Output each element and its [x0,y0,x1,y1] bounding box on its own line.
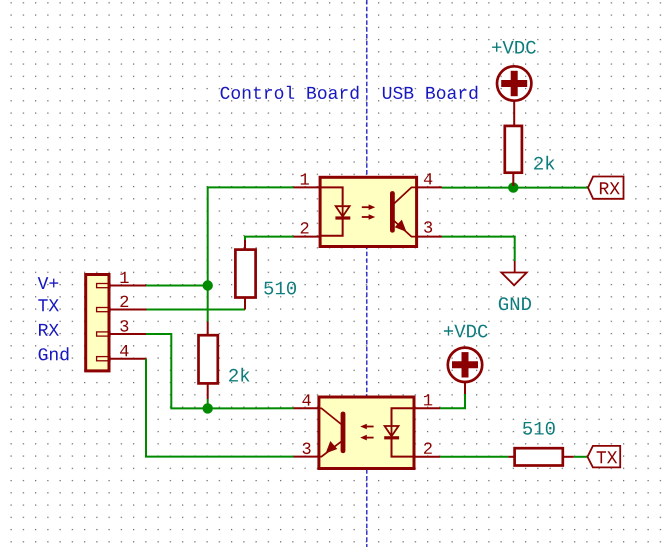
wire RX to junction B [146,334,294,408]
opto U1 pin number 3 [424,221,432,233]
opto U1 pin number 4 [424,173,432,184]
opto-isolator U1 body [320,177,417,246]
opto U1 light arrow top [362,204,375,210]
title USB Board [383,86,477,99]
opto U2 collector [317,408,341,424]
resistor R3 2k body [505,126,522,173]
opto U2 LED triangle [385,426,399,436]
power +VDC top stub [513,101,515,126]
wire R2 to opto U1 pin 2 [245,237,294,240]
opto U2 pin number 4 [302,394,310,405]
opto-isolator U2 pin 4 stub [294,407,320,409]
opto U1 LED triangle [336,206,350,216]
resistor R4 510 left lead [508,456,514,458]
opto U1 pin number 1 [301,173,309,184]
wire TX to R2 [147,309,246,311]
resistor R2 510 body [235,250,255,298]
flag TX text [597,451,618,463]
wire R4 to flag TX [574,456,588,458]
connector J1 pin 1 stub [109,285,147,287]
flag RX [588,177,624,199]
opto U2 emitter [317,441,341,456]
node junction A (V+ / R1) [203,280,213,290]
resistor R1 2k body [199,335,218,383]
opto-isolator U1 pin 2 stub [294,236,321,238]
opto U1 LED cathode bar [335,216,350,219]
wire opto U2 pin 2 to R4 [440,456,508,458]
opto U2 pin number 2 [424,442,432,453]
opto U2 pin number 1 [424,394,432,405]
power +VDC symbol top [497,66,531,100]
connector J1 pin 2 stub [109,309,147,311]
power label +VDC bottom [444,325,488,338]
opto U1 light arrow bottom [362,214,375,220]
resistor R4 right lead [563,456,574,458]
flag RX text [600,182,620,194]
title Control Board [221,86,359,99]
resistor R3 value 2k [534,156,555,170]
net label TX [38,299,59,311]
node junction B (RX net) [203,403,213,413]
power +VDC bottom stub [464,382,466,394]
opto-isolator U2 body [319,397,414,469]
node junction C (RX usb) [508,182,518,192]
opto U1 collector [394,187,417,203]
opto U1 LED cathode wire [320,218,343,236]
connector J1 pin 4 stub [109,358,147,360]
opto U2 LED cathode wire [392,438,414,457]
opto-isolator U1 pin 1 stub [294,186,321,188]
wire opto U1 pin 4 to flag RX [442,187,588,189]
opto U1 pin 3 stub [417,236,443,238]
opto U2 LED cathode bar [384,436,399,439]
connector J1 pin 3 notch [97,332,110,336]
opto U2 pin number 3 [303,443,311,455]
opto U1 phototransistor base bar [390,191,395,233]
ground stub [514,261,516,273]
board separator dashed line [366,0,368,547]
resistor R1 value 2k [229,368,250,382]
wire junction up to opto U1 pin 1 [208,187,294,286]
connector J1 pin 1 notch [97,284,110,288]
connector J1 pin number 3 [120,320,128,332]
ground symbol [501,273,526,286]
wire +VDC to opto U2 pin 1 [440,394,465,408]
connector J1 pin number 2 [120,296,128,307]
connector J1 pin number 4 [120,345,128,356]
connector J1 pin 2 notch [97,308,110,312]
opto U2 pin 1 stub [414,407,440,409]
opto-isolator U2 pin 3 stub [294,456,320,458]
power label +VDC top [492,41,536,54]
wire Gnd to opto U2 pin 3 [146,359,294,457]
connector J1 pin 3 stub [109,333,147,335]
resistor R1 bottom lead [207,383,209,399]
opto U1 emitter [394,221,417,237]
opto U2 phototransistor base bar [341,412,346,454]
power +VDC symbol bottom [448,348,482,382]
net label RX [39,324,59,336]
ground label GND [499,297,531,310]
wire opto U1 pin 3 to ground [442,237,515,261]
opto U2 pin 2 stub [414,456,440,458]
resistor R3 bottom lead [512,173,514,186]
resistor R4 510 body [515,448,563,465]
opto U2 LED anode wire [392,408,414,425]
opto U2 LED center line [391,425,393,438]
wire V+ to junction [146,285,208,287]
connector J1 pin number 1 [120,272,128,283]
resistor R2 510 bottom lead [244,298,246,310]
opto U1 pin 4 stub [417,186,443,188]
opto U1 LED center line [342,205,344,218]
flag TX [588,446,621,468]
connector J1 body [86,275,109,371]
resistor R1 2k top lead [207,322,209,337]
resistor R2 top lead [244,239,246,251]
net label V+ [38,277,59,289]
opto U2 light arrow bottom [360,435,373,441]
resistor R4 value 510 [523,422,555,435]
opto U2 light arrow top [360,424,373,430]
opto U1 LED anode wire [320,187,343,205]
wire R1 to junction B [207,399,209,408]
opto U2 emitter arrowhead [326,441,338,453]
opto U1 pin number 2 [301,222,309,233]
wire junction A down to R1 [207,286,209,322]
connector J1 pin 4 notch [97,357,110,361]
net label Gnd [39,347,69,360]
resistor R2 value 510 [264,282,296,295]
opto U1 emitter arrowhead [395,220,407,232]
